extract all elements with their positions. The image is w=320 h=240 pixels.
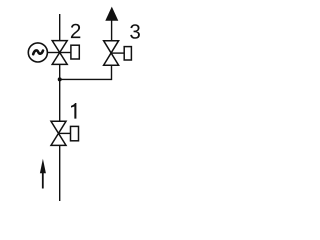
wire supply top <box>59 14 61 41</box>
label 3 <box>130 24 140 39</box>
label 1 <box>71 103 76 119</box>
wire valve 3 to actuator box 3 <box>111 52 124 54</box>
actuator box of valve 2 <box>71 45 79 59</box>
wire branch riser <box>111 65 113 80</box>
wire valve 1 to actuator box 1 <box>59 132 71 134</box>
actuator box of valve 1 <box>71 126 79 140</box>
wire valve 2 to actuator box 2 <box>60 52 71 54</box>
flow arrow inlet (slender) <box>40 159 46 189</box>
valve V2 (bowtie) <box>52 41 67 65</box>
valve V1 (bowtie) <box>51 121 66 145</box>
wire junction to valve 1 <box>59 79 61 121</box>
valve V3 (bowtie) <box>104 41 119 65</box>
wire valve 1 down to bottom <box>59 145 61 201</box>
flow arrow outlet (filled) <box>105 7 118 21</box>
wire valve 3 up to outlet arrow <box>111 20 113 41</box>
label 2 <box>71 24 80 38</box>
wire motor to valve 2 <box>47 52 59 54</box>
motor M (AC actuator circle) <box>28 43 47 62</box>
actuator box of valve 3 <box>124 47 131 60</box>
wire valve 2 down to junction <box>59 64 61 79</box>
wire branch horizontal <box>60 78 112 80</box>
node junction <box>58 77 62 81</box>
